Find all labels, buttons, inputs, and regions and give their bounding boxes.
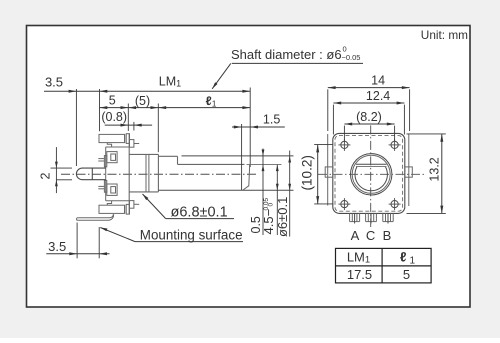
shaft flat line	[178, 163, 245, 165]
svg-text:ø6.8±0.1: ø6.8±0.1	[171, 205, 228, 221]
arrow 12.4 l	[333, 102, 341, 105]
arrow 5 left	[100, 106, 108, 109]
upper left tick	[98, 158, 104, 160]
arrow 14 l	[328, 86, 336, 89]
arrow 3.5 right	[100, 90, 108, 93]
shaft diameter underline	[232, 62, 363, 64]
svg-text:(8.2): (8.2)	[356, 110, 382, 124]
arrow 5 right	[121, 106, 129, 109]
ext 10.2 t	[314, 144, 332, 146]
front center v	[370, 125, 372, 227]
svg-text:Mounting surface: Mounting surface	[140, 227, 243, 242]
bottom bracket	[130, 201, 134, 209]
dim line 12.4	[333, 102, 404, 104]
ext line x77 low	[76, 223, 78, 259]
front center h	[318, 173, 424, 175]
rivet TR	[391, 141, 398, 148]
mounting plate	[76, 214, 113, 220]
front ring circle	[352, 155, 390, 193]
ext 8.2 l	[343, 126, 345, 141]
bushing groove	[145, 154, 147, 192]
rivet TL	[341, 141, 348, 148]
dim line (10.2)	[317, 145, 319, 204]
svg-text:3.5: 3.5	[48, 239, 66, 254]
center line side view	[61, 173, 256, 175]
lower terminal pin	[107, 184, 117, 195]
body bottom edge	[106, 200, 130, 202]
front side plate left	[327, 134, 329, 206]
ext line 2 top	[51, 167, 73, 169]
ext line x241.6	[241, 124, 243, 190]
dim line 5/(5)/l1	[100, 107, 251, 109]
top foot bar	[99, 134, 125, 142]
svg-text:A: A	[351, 228, 360, 243]
ext 12.4 r	[403, 105, 405, 135]
ext 12.4 l	[332, 105, 334, 135]
front outer circle	[351, 154, 392, 195]
dim line 3.5 low	[46, 253, 109, 255]
svg-text:(0.8): (0.8)	[101, 110, 127, 124]
bottom foot bar	[99, 205, 125, 213]
arrow 10.2 b	[316, 196, 319, 204]
dim line 1.5	[232, 126, 285, 128]
bottom foot post	[126, 204, 129, 214]
shaft flat step	[177, 156, 179, 164]
arrow 8.2 l	[344, 123, 352, 126]
front tab left	[325, 167, 333, 177]
arrow 0.5 bottom	[262, 165, 265, 172]
arrow 3.5low left	[69, 252, 77, 255]
bottom leg bend	[107, 201, 111, 205]
lower left tick	[98, 185, 104, 187]
arrow 8.2 r	[387, 123, 395, 126]
ext 13.2 b	[407, 212, 446, 214]
svg-text:17.5: 17.5	[347, 267, 372, 282]
svg-text:ø6±0.1: ø6±0.1	[275, 197, 290, 237]
arrow (0.8) left	[121, 124, 129, 127]
arrow 13.2 b	[440, 206, 443, 214]
shaft diameter leader	[212, 63, 231, 88]
arrow dia6 bottom	[288, 184, 291, 191]
top leg bend	[107, 143, 111, 147]
arrow 2 top	[55, 162, 58, 169]
arrow 4.5 top	[276, 165, 279, 172]
svg-text:0.05: 0.05	[263, 197, 270, 210]
svg-text:14: 14	[371, 74, 385, 88]
svg-text:5: 5	[109, 94, 116, 108]
dim line dia6	[289, 151, 291, 237]
ext line x133.9	[133, 122, 135, 131]
arrow 3.5low right	[99, 252, 107, 255]
arrow dia6 top	[288, 156, 291, 163]
svg-text:(10.2): (10.2)	[299, 155, 314, 191]
upper terminal pin	[107, 152, 117, 163]
dia6.8 leader	[143, 194, 166, 219]
table frame	[336, 248, 432, 283]
arrow 1.5 left	[234, 126, 242, 129]
rivet BL	[341, 201, 348, 208]
ext flat y164.6	[247, 164, 282, 166]
top foot post	[126, 134, 129, 144]
body top edge	[106, 146, 130, 148]
svg-text:(5): (5)	[135, 94, 150, 108]
ext line x250.2	[249, 88, 251, 168]
ext 14 r	[409, 89, 411, 131]
shaft tip outline	[243, 165, 250, 190]
arrow LM1 right	[242, 90, 250, 93]
shaft top edge	[158, 155, 177, 157]
ext line x99 low	[98, 227, 100, 258]
ext line x76	[75, 89, 77, 166]
body face plate	[128, 134, 130, 214]
shaft bottom edge	[158, 189, 293, 191]
dim line 2	[55, 147, 57, 193]
svg-text:B: B	[383, 228, 392, 243]
arrow 1.5 right	[250, 126, 258, 129]
svg-text:3.5: 3.5	[45, 75, 63, 90]
svg-text:−0.05: −0.05	[342, 53, 361, 62]
terminal B	[382, 213, 384, 221]
svg-text:13.2: 13.2	[427, 157, 441, 181]
arrow 4.5 bottom	[276, 184, 279, 191]
front shaft arc	[355, 167, 387, 191]
arrow 13.2 t	[440, 134, 443, 142]
arrow 10.2 t	[316, 145, 319, 153]
top bracket	[130, 140, 134, 148]
dim line 4.5	[276, 165, 278, 235]
ext 10.2 b	[314, 203, 333, 205]
border frame	[27, 26, 471, 308]
svg-text:2: 2	[38, 172, 52, 179]
dim line (0.8)	[105, 124, 152, 126]
ext 8.2 r	[394, 126, 396, 141]
arrow l1 left	[158, 106, 166, 109]
shaft top line full	[182, 155, 294, 157]
rear stub tick	[91, 168, 93, 180]
ext 14 l	[327, 89, 329, 131]
mounting surface leader	[100, 228, 135, 242]
rivet BR	[391, 201, 398, 208]
svg-text:C: C	[366, 228, 375, 243]
rear stub	[76, 168, 105, 180]
svg-text:5: 5	[403, 267, 410, 282]
terminal A	[349, 213, 351, 221]
body left edge	[105, 147, 107, 201]
dim line 14	[328, 87, 410, 89]
ext line x128	[127, 104, 129, 132]
front flat chord	[356, 163, 387, 165]
arrow 12.4 r	[397, 102, 405, 105]
front tab right	[405, 167, 413, 177]
ext line x99	[99, 89, 101, 131]
arrow 3.5 left	[69, 90, 77, 93]
dim line (8.2)	[344, 123, 394, 125]
arrow 14 r	[402, 86, 410, 89]
svg-text:Shaft diameter : ø6: Shaft diameter : ø6	[231, 47, 342, 62]
front body dashed	[335, 136, 403, 212]
ext line 2 bottom	[56, 179, 72, 181]
arrow 0.5 top	[262, 150, 265, 157]
svg-text:12.4: 12.4	[366, 89, 390, 103]
svg-text:1.5: 1.5	[263, 113, 280, 127]
svg-text:4.5−: 4.5−	[261, 209, 276, 235]
arrow l1 right	[242, 106, 250, 109]
bushing outline	[129, 153, 158, 155]
arrow (0.8) right	[134, 124, 142, 127]
arrow 2 bottom	[55, 180, 58, 187]
ext line x158	[157, 104, 159, 153]
dim line 0.5	[262, 149, 264, 236]
dim line LM1/3.5	[44, 90, 250, 92]
arrow (5) right	[151, 106, 159, 109]
dim line 13.2	[441, 134, 443, 214]
front body	[333, 133, 405, 213]
ext 13.2 t	[407, 133, 446, 135]
front side plate right	[408, 134, 410, 207]
terminal C	[365, 213, 367, 221]
svg-text:Unit: mm: Unit: mm	[421, 28, 468, 42]
arrow (5) left	[128, 106, 136, 109]
